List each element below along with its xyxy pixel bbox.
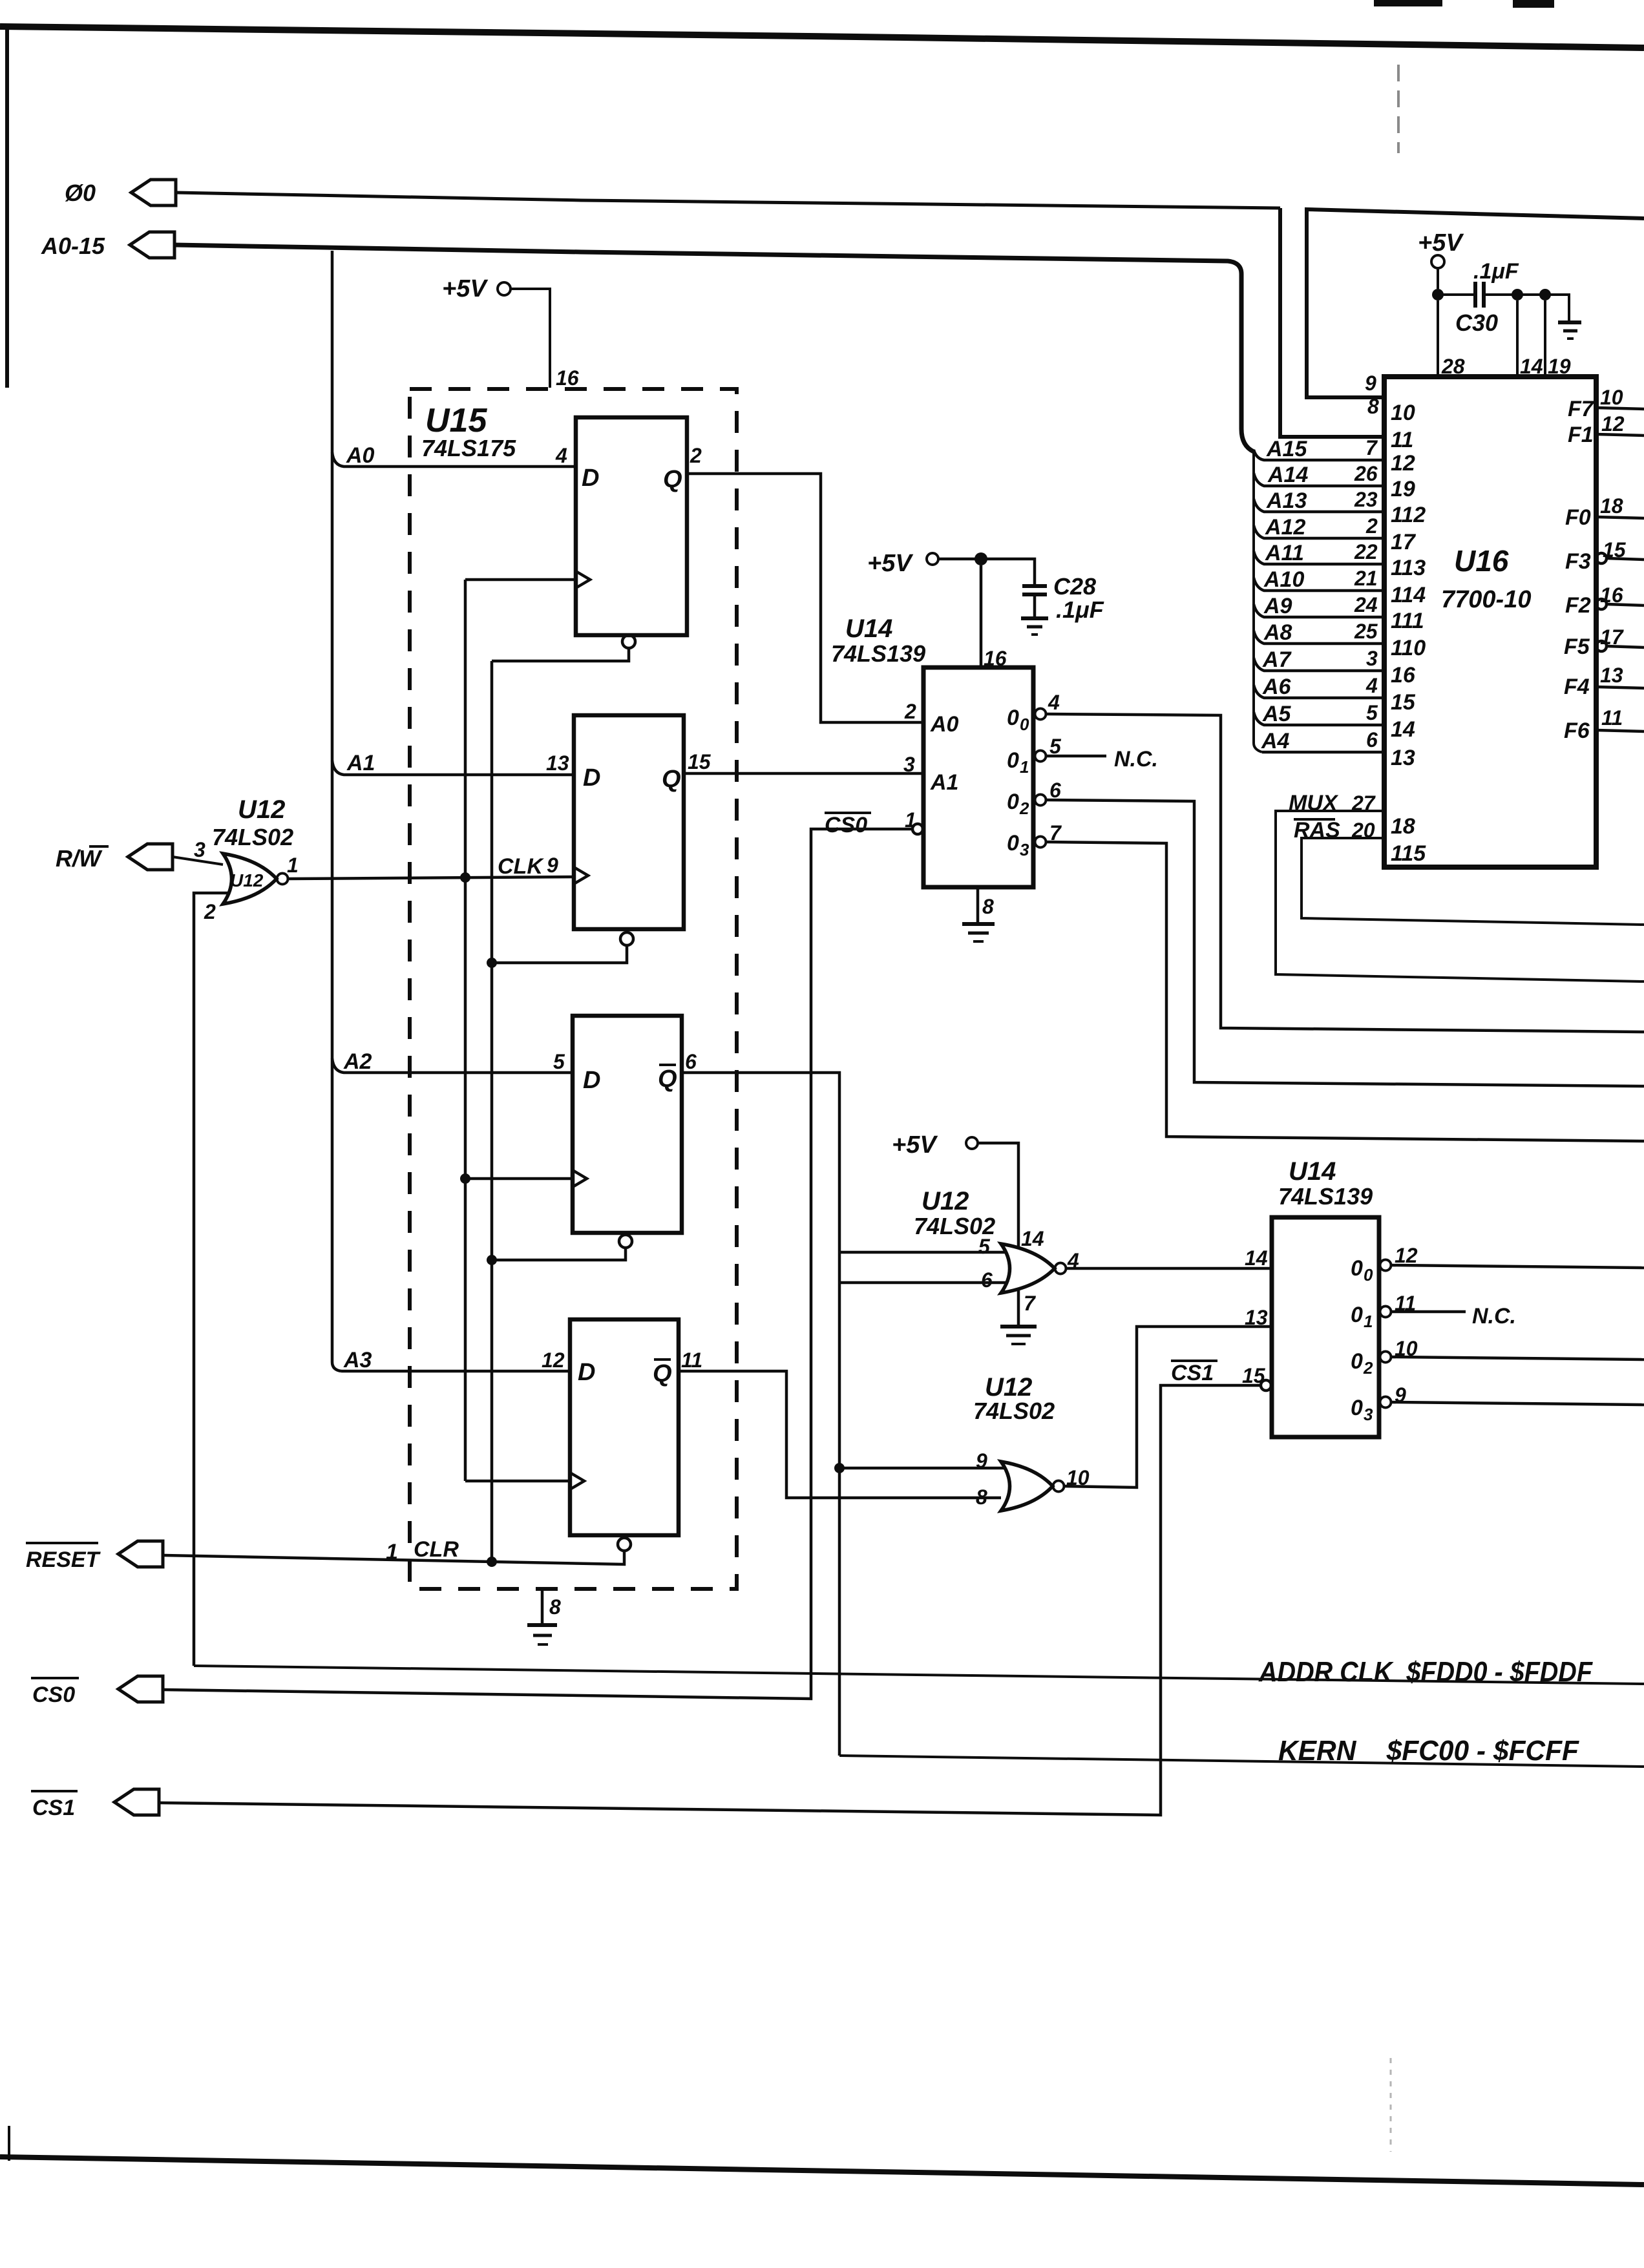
svg-text:F2: F2: [1565, 593, 1591, 618]
svg-text:RESET: RESET: [26, 1548, 101, 1572]
svg-text:10: 10: [1395, 1337, 1418, 1360]
latch U15 74LS175 dashed outline: [410, 389, 737, 1589]
svg-text:A14: A14: [1267, 463, 1308, 487]
wire A3 tap: [341, 1370, 570, 1373]
svg-text:D: D: [578, 1359, 595, 1386]
svg-text:27: 27: [1351, 792, 1376, 815]
svg-text:CS1: CS1: [32, 1796, 75, 1820]
svg-text:24: 24: [1354, 593, 1378, 616]
svg-text:111: 111: [1391, 609, 1424, 633]
svg-text:3: 3: [1366, 647, 1378, 670]
svg-text:18: 18: [1391, 814, 1415, 839]
svg-text:ADDR CLK $FDD0 - $FDDF: ADDR CLK $FDD0 - $FDDF: [1258, 1656, 1593, 1688]
wire A8 row: [1254, 631, 1384, 644]
wire CS1 run to decoder2: [159, 1385, 1261, 1815]
svg-text:6: 6: [1049, 779, 1061, 802]
svg-text:11: 11: [1395, 1292, 1416, 1315]
svg-text:74LS02: 74LS02: [973, 1398, 1055, 1424]
svg-text:.1μF: .1μF: [1473, 259, 1519, 284]
border frame bottom-left stub: [8, 2126, 10, 2161]
svg-text:4: 4: [1067, 1249, 1079, 1272]
svg-text:CLR: CLR: [414, 1537, 459, 1562]
svg-text:A13: A13: [1266, 488, 1307, 513]
svg-text:F3: F3: [1565, 549, 1591, 574]
svg-text:74LS139: 74LS139: [831, 640, 925, 667]
svg-text:10: 10: [1600, 386, 1623, 409]
svg-text:U14: U14: [1289, 1157, 1336, 1186]
wire pin28 drop: [1437, 300, 1439, 377]
wire A5 row: [1254, 712, 1384, 725]
svg-text:D: D: [583, 1067, 600, 1094]
svg-text:25: 25: [1354, 620, 1378, 643]
svg-text:A8: A8: [1263, 620, 1292, 645]
svg-text:1: 1: [905, 808, 916, 832]
wire A6 row: [1254, 685, 1384, 698]
svg-text:2: 2: [1363, 1358, 1373, 1378]
ground at U15 pin8: [541, 1590, 544, 1624]
svg-text:F1: F1: [1568, 423, 1594, 447]
wire +5V to U14a pin16: [980, 565, 983, 667]
wire R/W to NOR input: [173, 857, 223, 865]
svg-text:1: 1: [1020, 757, 1029, 777]
svg-text:A5: A5: [1262, 702, 1292, 726]
svg-text:12: 12: [1395, 1244, 1418, 1267]
svg-text:17: 17: [1391, 530, 1417, 554]
svg-text:C28: C28: [1053, 573, 1096, 600]
svg-text:17: 17: [1600, 625, 1625, 649]
border frame left: [5, 28, 9, 388]
svg-text:A7: A7: [1262, 647, 1292, 672]
clock input mark FF2: [574, 867, 588, 884]
svg-text:U16: U16: [1454, 544, 1509, 578]
flip-flop FF1 (A0): [576, 417, 687, 635]
svg-text:3: 3: [1364, 1405, 1373, 1424]
node CLR junction dot: [487, 1557, 497, 1567]
svg-text:C30: C30: [1455, 310, 1498, 336]
connector RESET: [118, 1541, 163, 1567]
svg-text:0: 0: [1351, 1396, 1363, 1420]
wire RAS: [1301, 838, 1644, 925]
capacitor C30: [1473, 282, 1477, 308]
wire CLK to FF3: [465, 1177, 573, 1181]
wire MUX: [1276, 811, 1644, 982]
wire FF2 Q to U14 A1: [684, 772, 923, 775]
node CLK-FF3 dot: [460, 1173, 470, 1184]
svg-text:13: 13: [1391, 746, 1415, 770]
svg-text:N.C.: N.C.: [1114, 747, 1158, 772]
svg-text:2: 2: [1365, 514, 1378, 538]
svg-text:.1μF: .1μF: [1056, 596, 1104, 623]
page-top crop marks: [1374, 0, 1442, 6]
clock input mark FF1: [576, 571, 590, 588]
svg-text:A1: A1: [346, 751, 375, 775]
wire cap to ground: [1484, 295, 1569, 321]
svg-text:14: 14: [1391, 717, 1415, 742]
wire U12b output 4 to U14b pin14: [1066, 1267, 1272, 1270]
wire A-bus vertical: [332, 251, 341, 1371]
svg-text:74LS175: 74LS175: [421, 435, 516, 461]
wire KERN line: [839, 1756, 1644, 1767]
svg-text:3: 3: [903, 753, 915, 776]
wire F4 output: [1596, 687, 1644, 688]
svg-text:10: 10: [1391, 401, 1415, 425]
svg-text:1: 1: [386, 1540, 398, 1564]
enable bubble U14b pin15: [1261, 1380, 1271, 1391]
svg-text:16: 16: [1391, 663, 1416, 688]
svg-text:A11: A11: [1265, 541, 1304, 565]
svg-text:7700-10: 7700-10: [1441, 586, 1531, 613]
wire A2 tap: [332, 1058, 573, 1073]
svg-text:Q: Q: [663, 466, 682, 493]
flip-flop FF4 (A3): [570, 1319, 679, 1535]
svg-text:F5: F5: [1564, 635, 1590, 659]
wire A13 row: [1254, 499, 1384, 512]
svg-text:5: 5: [553, 1050, 565, 1073]
wire CS0 run to decoder: [163, 829, 912, 1699]
wire FF3 Qbar down to gates and KERN: [682, 1073, 839, 1756]
svg-text:D: D: [583, 764, 600, 792]
svg-text:15: 15: [1391, 690, 1416, 715]
svg-text:5: 5: [1366, 701, 1378, 724]
svg-text:+5V: +5V: [1418, 229, 1464, 257]
svg-text:15: 15: [1603, 538, 1627, 562]
svg-text:23: 23: [1354, 488, 1378, 511]
svg-text:8: 8: [1367, 395, 1379, 418]
ground at U14a pin8: [976, 887, 980, 923]
svg-text:+5V: +5V: [442, 275, 488, 302]
node junction dot pin14: [1512, 289, 1523, 300]
svg-text:A3: A3: [343, 1348, 372, 1372]
svg-text:14: 14: [1245, 1246, 1268, 1270]
svg-text:74LS02: 74LS02: [212, 824, 293, 850]
svg-text:0: 0: [1351, 1256, 1363, 1281]
svg-text:2: 2: [204, 900, 216, 923]
svg-text:14: 14: [1021, 1227, 1044, 1250]
svg-text:CS0: CS0: [32, 1683, 75, 1707]
svg-text:CS1: CS1: [1171, 1361, 1214, 1385]
wire A0 tap: [332, 452, 576, 467]
svg-text:28: 28: [1441, 355, 1465, 378]
connector PHI0: [131, 180, 176, 205]
svg-text:U15: U15: [425, 402, 487, 439]
clock input mark FF3: [573, 1170, 587, 1187]
connector CS1: [114, 1789, 159, 1815]
svg-text:110: 110: [1391, 636, 1426, 660]
wire FF4 Qbar to NOR input 8: [679, 1371, 1001, 1498]
svg-text:A12: A12: [1265, 515, 1305, 540]
wire U12a output to FF clocks: [288, 877, 576, 879]
svg-text:0: 0: [1007, 831, 1019, 856]
svg-text:CS0: CS0: [825, 813, 867, 837]
svg-text:6: 6: [1366, 728, 1378, 751]
wire U12c output 10 up to U14b pin13: [1064, 1327, 1272, 1487]
svg-text:21: 21: [1354, 567, 1378, 590]
svg-text:0: 0: [1351, 1349, 1363, 1374]
svg-text:D: D: [582, 465, 599, 492]
svg-text:A6: A6: [1262, 675, 1292, 699]
svg-text:7: 7: [1049, 821, 1062, 845]
wire U12a pin2 to ADDRCLK line: [194, 893, 227, 1666]
svg-text:1: 1: [287, 854, 299, 877]
svg-text:8: 8: [982, 895, 994, 918]
svg-text:16: 16: [984, 647, 1007, 670]
node CLK-NOR dot: [460, 872, 470, 883]
svg-text:4: 4: [1048, 691, 1060, 714]
svg-text:U12: U12: [238, 795, 285, 824]
wire CLK to FF4: [465, 1480, 570, 1483]
svg-text:0: 0: [1351, 1303, 1363, 1327]
connector CS0: [118, 1676, 163, 1702]
svg-text:7: 7: [1024, 1292, 1037, 1315]
svg-text:15: 15: [688, 750, 711, 773]
svg-text:11: 11: [681, 1349, 702, 1372]
svg-text:10: 10: [1066, 1466, 1090, 1489]
wire PHI0 to corner: [176, 193, 1280, 208]
scan artifact verticals: [1397, 65, 1400, 153]
wire F2 output with bubble: [1596, 599, 1607, 609]
svg-text:0: 0: [1020, 715, 1029, 734]
svg-text:4: 4: [555, 444, 567, 467]
svg-text:9: 9: [547, 854, 558, 877]
svg-text:11: 11: [1601, 706, 1623, 730]
svg-text:KERN $FC00 - $FCFF: KERN $FC00 - $FCFF: [1278, 1735, 1579, 1767]
wire F5 output with bubble: [1596, 641, 1607, 651]
svg-text:F6: F6: [1564, 719, 1590, 743]
svg-text:20: 20: [1351, 819, 1375, 842]
svg-text:3: 3: [1020, 840, 1029, 859]
svg-text:0: 0: [1364, 1265, 1373, 1285]
svg-text:2: 2: [904, 700, 916, 723]
svg-text:74LS139: 74LS139: [1278, 1183, 1373, 1210]
svg-text:A9: A9: [1263, 594, 1292, 618]
wire U12b input5: [839, 1251, 1006, 1254]
svg-text:13: 13: [1600, 664, 1623, 687]
flip-flop FF2 (A1): [574, 715, 684, 929]
wire F7 output: [1596, 408, 1644, 409]
svg-text:9: 9: [976, 1449, 987, 1473]
svg-text:F4: F4: [1564, 675, 1590, 699]
svg-text:U12: U12: [230, 870, 264, 890]
svg-text:Q: Q: [658, 1066, 677, 1093]
wire +5V to cap C30: [1438, 293, 1474, 296]
svg-text:13: 13: [1245, 1306, 1268, 1329]
node CLR-FF2 dot: [487, 958, 497, 968]
svg-text:8: 8: [549, 1595, 561, 1619]
svg-text:26: 26: [1354, 462, 1378, 485]
capacitor C28: [1022, 584, 1047, 588]
svg-text:22: 22: [1354, 540, 1378, 563]
svg-text:11: 11: [1391, 428, 1413, 452]
wire A7 row: [1254, 658, 1384, 671]
svg-text:A2: A2: [343, 1049, 372, 1074]
ROM U16: [1384, 377, 1596, 867]
node +5V junction: [1432, 289, 1444, 300]
svg-text:U12: U12: [922, 1187, 969, 1215]
svg-text:0: 0: [1007, 748, 1019, 773]
svg-text:4: 4: [1365, 674, 1378, 697]
svg-text:A10: A10: [1263, 567, 1304, 592]
wire pin19 drop: [1544, 300, 1546, 377]
svg-text:R/W: R/W: [56, 845, 103, 872]
enable bubble U14a pin1: [912, 824, 923, 834]
svg-text:F0: F0: [1565, 505, 1591, 530]
clear bubble FF1: [622, 635, 635, 648]
svg-text:6: 6: [685, 1050, 697, 1073]
wire F0 output: [1596, 517, 1644, 518]
svg-text:CLK: CLK: [498, 854, 544, 879]
svg-text:RAS: RAS: [1294, 818, 1340, 843]
svg-text:6: 6: [981, 1268, 993, 1292]
wire pin14 drop: [1516, 300, 1519, 377]
border frame bottom: [0, 2157, 1644, 2185]
node junction dot pin19: [1539, 289, 1551, 300]
svg-text:+5V: +5V: [892, 1131, 938, 1159]
svg-text:A1: A1: [930, 770, 958, 795]
wire FF1 clear to CLR rail: [492, 648, 629, 661]
wire PHI0 vertical drop: [1280, 208, 1384, 437]
svg-text:15: 15: [1242, 1364, 1266, 1387]
wire F3 output with bubble: [1596, 553, 1607, 563]
wire CLR distribution rail: [490, 661, 494, 1562]
clear bubble FF4: [618, 1538, 631, 1551]
svg-text:9: 9: [1365, 372, 1376, 395]
clock input mark FF4: [570, 1473, 584, 1489]
wire F6 output: [1596, 730, 1644, 731]
wire A14 row: [1254, 473, 1384, 486]
svg-text:13: 13: [546, 751, 569, 775]
flip-flop FF3 (A2): [573, 1016, 682, 1233]
node input9 dot: [834, 1463, 845, 1473]
wire A4 row: [1262, 751, 1384, 754]
svg-text:0: 0: [1007, 706, 1019, 730]
node +5V dot U14a: [975, 552, 987, 565]
address ladder rail: [1254, 452, 1262, 752]
svg-text:A0: A0: [930, 712, 959, 737]
node CLR-FF3 dot: [487, 1255, 497, 1265]
svg-text:19: 19: [1548, 355, 1571, 378]
wire top-right net to page edge: [1307, 209, 1644, 397]
svg-text:9: 9: [1395, 1383, 1406, 1407]
ground at C30: [1558, 320, 1581, 324]
svg-text:Q: Q: [653, 1360, 672, 1387]
svg-text:N.C.: N.C.: [1472, 1304, 1516, 1328]
svg-text:5: 5: [1049, 735, 1062, 758]
svg-text:115: 115: [1391, 841, 1426, 866]
svg-text:114: 114: [1391, 583, 1426, 607]
wire A1 tap: [332, 761, 574, 775]
svg-text:F7: F7: [1568, 397, 1595, 421]
svg-text:18: 18: [1600, 494, 1623, 518]
wire A12 row: [1254, 525, 1384, 538]
wire CLK to FF1: [465, 578, 576, 582]
svg-text:3: 3: [194, 838, 205, 861]
wire F1 output: [1596, 434, 1644, 436]
wire A0-15 bus: [174, 245, 1254, 452]
svg-text:14: 14: [1520, 355, 1543, 378]
border frame top: [0, 26, 1644, 48]
wire A9 row: [1254, 604, 1384, 617]
svg-text:12: 12: [1391, 451, 1415, 476]
svg-text:12: 12: [542, 1349, 565, 1372]
svg-text:5: 5: [978, 1235, 991, 1258]
svg-text:A0-15: A0-15: [41, 233, 105, 259]
clear bubble FF3: [619, 1235, 632, 1248]
wire A15 row: [1254, 450, 1384, 460]
wire U12b input6: [839, 1281, 1006, 1285]
wire CLK distribution rail: [464, 580, 467, 1481]
connector A0-15: [130, 232, 174, 258]
wire U12c input9: [839, 1467, 1006, 1470]
svg-text:112: 112: [1391, 503, 1426, 527]
wire A11 row: [1254, 551, 1384, 564]
svg-text:Ø0: Ø0: [65, 180, 96, 206]
svg-text:12: 12: [1601, 412, 1625, 436]
svg-text:A4: A4: [1261, 729, 1290, 753]
svg-text:113: 113: [1391, 556, 1426, 580]
ground at C28: [1021, 616, 1048, 620]
svg-text:A15: A15: [1266, 437, 1307, 461]
svg-text:+5V: +5V: [867, 550, 913, 577]
wire A10 row: [1254, 578, 1384, 591]
wire FF1 Q to U14 A0: [687, 474, 923, 722]
svg-text:U14: U14: [845, 614, 892, 643]
svg-text:Q: Q: [662, 766, 681, 793]
svg-text:MUX: MUX: [1289, 791, 1339, 815]
svg-text:A0: A0: [346, 443, 375, 468]
svg-text:19: 19: [1391, 477, 1415, 501]
connector R/W: [128, 844, 173, 870]
svg-text:8: 8: [976, 1486, 987, 1509]
svg-text:2: 2: [1019, 799, 1029, 818]
svg-text:16: 16: [556, 366, 579, 390]
svg-text:16: 16: [1600, 583, 1623, 607]
clear bubble FF2: [620, 932, 633, 945]
wire RESET / CLR line: [163, 1551, 624, 1564]
svg-text:1: 1: [1364, 1312, 1373, 1331]
svg-text:2: 2: [690, 444, 702, 467]
ground pin7 at U12b: [1017, 1290, 1020, 1325]
wire ADDR CLK line: [194, 1666, 1644, 1684]
wire FF3 clear to CLR rail: [492, 1248, 626, 1260]
svg-text:7: 7: [1365, 436, 1378, 459]
wire FF2 clear to CLR rail: [492, 945, 627, 963]
svg-text:0: 0: [1007, 790, 1019, 814]
